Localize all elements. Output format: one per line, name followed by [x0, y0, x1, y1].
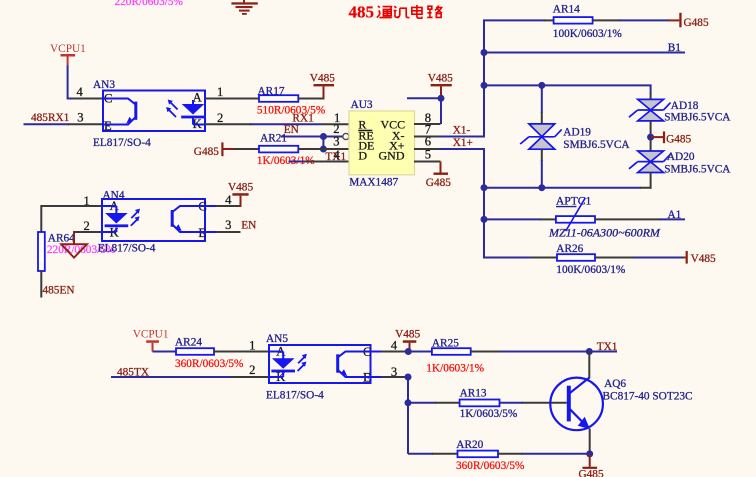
wire AN5 pin4 to AR25	[371, 351, 432, 353]
svg-text:TX1: TX1	[597, 341, 618, 353]
svg-text:SMBJ6.5VCA: SMBJ6.5VCA	[563, 139, 630, 151]
svg-text:AN5: AN5	[266, 333, 288, 345]
svg-text:510R/0603/5%: 510R/0603/5%	[257, 105, 326, 117]
wire AN3 pin1 to AR17	[205, 98, 259, 100]
power V485 (AN5 pin4)	[395, 329, 420, 352]
svg-text:D: D	[358, 149, 367, 163]
wire RX1: AN3 pin2 to AU3 pin1	[205, 123, 349, 125]
svg-text:3: 3	[77, 111, 83, 125]
wire AN4 pin1 to AR64	[41, 206, 102, 232]
optocoupler AN4 (EL817)	[102, 199, 207, 241]
pin AD19 bottom	[541, 149, 543, 188]
svg-text:AR26: AR26	[556, 243, 583, 255]
svg-text:SMBJ6.5VCA: SMBJ6.5VCA	[664, 112, 731, 124]
svg-text:AR13: AR13	[460, 388, 487, 400]
wire 485TX to AN5 pin2	[111, 376, 269, 378]
svg-text:1K/0603/1%: 1K/0603/1%	[426, 362, 484, 374]
power V485 right of AR26	[683, 251, 716, 265]
ground	[231, 0, 257, 15]
svg-text:3: 3	[225, 218, 231, 232]
svg-text:4: 4	[334, 148, 341, 162]
svg-text:SMBJ6.5VCA: SMBJ6.5VCA	[664, 163, 731, 175]
svg-text:2: 2	[84, 219, 90, 233]
svg-text:EL817/SO-4: EL817/SO-4	[93, 137, 151, 149]
resistor AR25	[426, 338, 484, 375]
svg-text:485RX1: 485RX1	[31, 112, 69, 124]
pin AD19 top	[541, 85, 543, 124]
svg-text:3: 3	[333, 135, 339, 149]
junction	[538, 184, 545, 191]
svg-text:AR64: AR64	[48, 233, 75, 245]
wire AN4 pin3 to EN	[205, 231, 241, 233]
wire VCPU1 to AN3 pin4	[68, 66, 103, 99]
wire top row to AD19/AD18	[484, 85, 651, 99]
svg-text:2: 2	[249, 363, 255, 377]
resistor AR21	[234, 133, 349, 168]
svg-text:AQ6: AQ6	[604, 378, 626, 390]
svg-text:AD18: AD18	[671, 100, 699, 112]
wire V485 to pin 8	[407, 98, 441, 124]
glyph 路	[427, 5, 442, 17]
pin AD18 bottom / AD20 top	[650, 121, 652, 151]
wire X1-	[439, 136, 485, 138]
svg-text:485EN: 485EN	[43, 285, 75, 297]
power G485 between AD18 and AD20	[651, 131, 692, 145]
svg-text:485: 485	[349, 2, 375, 21]
svg-text:V485: V485	[691, 253, 716, 265]
svg-text:AR21: AR21	[260, 133, 287, 145]
wire 485RX1	[24, 123, 104, 125]
wire bottom row	[484, 186, 651, 189]
svg-text:EL817/SO-4: EL817/SO-4	[266, 390, 324, 402]
wire APTC1 row left	[484, 218, 556, 220]
junction	[438, 95, 445, 102]
svg-text:2: 2	[217, 111, 223, 125]
power G485 right of AR14	[679, 13, 709, 29]
wire AR25 to TX1	[471, 351, 617, 353]
transistor AQ6	[550, 377, 692, 430]
svg-text:G485: G485	[666, 133, 691, 145]
title 485通讯电路	[349, 2, 443, 21]
svg-text:AN3: AN3	[93, 79, 115, 91]
junction	[320, 133, 327, 140]
TVS diode AD19	[520, 124, 630, 151]
svg-text:360R/0603/5%: 360R/0603/5%	[175, 358, 244, 370]
power G485 (bottom)	[579, 454, 604, 477]
optocoupler AN5 (EL817)	[269, 345, 371, 385]
svg-text:G485: G485	[684, 17, 709, 29]
pin AQ6 collector to TX1	[588, 352, 590, 378]
wire X1+	[439, 148, 485, 150]
svg-text:AR14: AR14	[553, 4, 580, 16]
wire AN5 pin3 down	[371, 377, 409, 454]
svg-text:X1-: X1-	[453, 125, 471, 137]
wire VCPU1 to AR24	[153, 351, 177, 353]
resistor AR24	[175, 336, 244, 370]
svg-text:AD20: AD20	[667, 151, 695, 163]
wire EN to AU3 pin2	[281, 137, 343, 150]
resistor AR20	[408, 439, 590, 472]
glyph 讯	[394, 6, 410, 18]
resistor AR13	[408, 388, 518, 420]
svg-text:MZ11-06A300~600RM: MZ11-06A300~600RM	[548, 226, 661, 240]
resistor AR17	[257, 86, 326, 117]
junction	[481, 216, 488, 223]
junction	[405, 374, 412, 381]
power V485 above AU3	[428, 73, 453, 98]
svg-text:RX1: RX1	[292, 113, 313, 125]
svg-text:V485: V485	[428, 73, 453, 85]
junction	[481, 49, 488, 56]
TVS diode AD18	[629, 99, 731, 123]
IC AU3 MAX1487 body	[349, 111, 415, 175]
svg-text:4: 4	[225, 193, 232, 207]
pin AD20 bottom	[650, 173, 652, 189]
inversion bubble AU3 pin2	[343, 133, 349, 139]
glyph 电	[412, 5, 422, 18]
power VCPU1	[50, 43, 86, 66]
svg-text:360R/0603/5%: 360R/0603/5%	[456, 460, 525, 472]
power V485	[310, 73, 335, 99]
svg-text:100K/0603/1%: 100K/0603/1%	[553, 28, 623, 40]
wire bus X1+ vertical	[484, 149, 533, 258]
svg-text:VCPU1: VCPU1	[133, 329, 169, 341]
wire AR17 to V485	[298, 98, 324, 100]
wire bus X1- vertical	[484, 20, 554, 136]
svg-text:AR20: AR20	[456, 439, 483, 451]
junction	[405, 399, 412, 406]
svg-text:GND: GND	[379, 149, 405, 163]
svg-text:G485: G485	[579, 468, 604, 477]
svg-text:BC817-40 SOT23C: BC817-40 SOT23C	[603, 390, 693, 402]
svg-text:A1: A1	[668, 209, 682, 221]
svg-text:1: 1	[249, 339, 255, 353]
svg-text:AR24: AR24	[175, 336, 202, 348]
TVS diode AD20	[629, 151, 731, 175]
power G485	[194, 142, 235, 158]
junction	[320, 146, 327, 153]
pin 8 lead	[414, 123, 441, 125]
svg-text:EN: EN	[241, 220, 256, 232]
junction	[405, 348, 412, 355]
svg-text:220R/0603/5%: 220R/0603/5%	[115, 0, 184, 8]
junction	[481, 184, 488, 191]
svg-text:G485: G485	[194, 146, 219, 158]
ground arrow (power gnd)	[61, 244, 87, 257]
power VCPU1 (bottom)	[133, 329, 169, 352]
optocoupler AN3 (EL817)	[103, 91, 205, 133]
junction	[538, 82, 545, 89]
pin 7 lead	[414, 136, 440, 138]
svg-text:MAX1487: MAX1487	[349, 177, 398, 189]
wire AR13 to AQ6 base	[500, 402, 567, 404]
pin 6 lead	[414, 148, 440, 150]
resistor AR64 (vertical)	[38, 232, 75, 271]
pin 5 lead	[414, 161, 441, 163]
power V485 (AN4 pin4)	[228, 181, 253, 207]
svg-text:E: E	[104, 119, 112, 133]
svg-text:V485: V485	[228, 181, 253, 193]
svg-text:1: 1	[217, 85, 223, 99]
svg-text:V485: V485	[310, 73, 335, 85]
svg-text:100K/0603/1%: 100K/0603/1%	[556, 264, 626, 276]
wire AR24 to AN5 pin1	[214, 351, 269, 353]
resistor AR14	[553, 4, 623, 40]
power G485 below pin 5	[426, 162, 451, 190]
thermistor APTC1	[556, 195, 595, 232]
svg-text:G485: G485	[426, 177, 451, 189]
junction	[586, 450, 593, 457]
glyph 通	[377, 6, 392, 18]
svg-text:X1+: X1+	[453, 137, 473, 149]
wire AR64 to 485EN	[40, 271, 42, 298]
junction	[481, 82, 488, 89]
svg-text:AD19: AD19	[563, 127, 591, 139]
svg-text:1K/0603/5%: 1K/0603/5%	[460, 408, 518, 420]
wire APTC1 to A1	[595, 218, 685, 220]
svg-text:V485: V485	[395, 329, 420, 341]
svg-text:VCPU1: VCPU1	[50, 43, 86, 55]
svg-text:APTC1: APTC1	[556, 195, 592, 208]
svg-text:EL817/SO-4: EL817/SO-4	[98, 243, 156, 255]
svg-text:AU3: AU3	[351, 99, 373, 111]
wire B1	[484, 52, 685, 54]
junction	[586, 348, 593, 355]
svg-text:4: 4	[77, 85, 84, 99]
wire AN4 pin2 to ground arrow	[73, 231, 102, 244]
pin AQ6 emitter down	[589, 429, 591, 454]
resistor AR26	[532, 243, 684, 276]
junction G485 node	[647, 134, 654, 141]
wire TX1 stub to AU3 pin4	[289, 161, 350, 163]
wire AR14 to G485	[593, 19, 680, 21]
wire AN4 pin4 to V485	[205, 205, 242, 207]
